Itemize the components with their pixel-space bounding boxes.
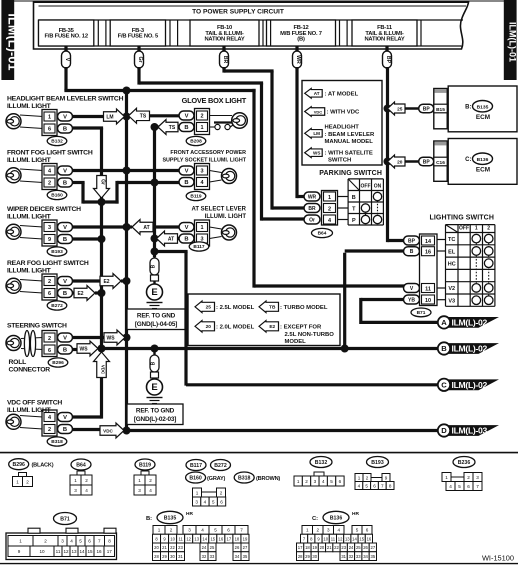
svg-text:: BEAM LEVELER: : BEAM LEVELER	[325, 132, 375, 138]
svg-text:21: 21	[162, 545, 167, 550]
svg-text:23: 23	[341, 545, 346, 550]
svg-text:10: 10	[39, 549, 45, 554]
svg-text:4: 4	[358, 483, 361, 488]
svg-text:(BLACK): (BLACK)	[32, 463, 54, 469]
svg-text:26: 26	[235, 545, 240, 550]
svg-text:5: 5	[356, 528, 359, 533]
svg-text:ILM(L)-02: ILM(L)-02	[452, 317, 488, 327]
svg-text:27: 27	[370, 545, 375, 550]
svg-text:VDC OFF SWITCH: VDC OFF SWITCH	[7, 400, 62, 407]
svg-text:2: 2	[149, 478, 152, 483]
svg-text:13: 13	[194, 536, 199, 541]
svg-text:4: 4	[322, 479, 325, 484]
svg-text:34: 34	[363, 554, 368, 559]
svg-text:9: 9	[18, 549, 21, 554]
svg-text:1: 1	[297, 479, 300, 484]
svg-text:3: 3	[188, 528, 191, 533]
svg-text:WS: WS	[79, 346, 88, 352]
svg-text:16: 16	[425, 250, 431, 256]
svg-text:ILLUMI. LIGHT: ILLUMI. LIGHT	[7, 213, 52, 220]
svg-text:6: 6	[366, 528, 369, 533]
svg-text:2: 2	[85, 478, 88, 483]
svg-text:BP: BP	[385, 56, 391, 64]
svg-text:17: 17	[298, 545, 303, 550]
svg-text:13: 13	[71, 549, 77, 554]
svg-text:19: 19	[243, 536, 248, 541]
svg-text:(GRAY): (GRAY)	[207, 476, 226, 482]
svg-text:2: 2	[170, 528, 173, 533]
svg-text:ON: ON	[374, 184, 382, 190]
svg-text:WR: WR	[308, 195, 317, 201]
svg-text:TC: TC	[448, 237, 455, 243]
svg-text:2: 2	[48, 181, 51, 187]
svg-text:1: 1	[328, 195, 331, 201]
svg-text:26: 26	[363, 545, 368, 550]
svg-text:ECM: ECM	[476, 167, 490, 174]
svg-text:3: 3	[138, 488, 141, 493]
svg-text:D: D	[441, 426, 447, 435]
svg-text:: 2.0L MODEL: : 2.0L MODEL	[216, 325, 255, 331]
svg-text:2: 2	[48, 427, 51, 433]
svg-text:22: 22	[334, 545, 339, 550]
svg-text:2: 2	[220, 491, 223, 496]
svg-text:: WITH SATELITE: : WITH SATELITE	[325, 150, 373, 156]
svg-text:Or: Or	[309, 218, 315, 224]
svg-text:B272: B272	[51, 303, 63, 309]
svg-text:B117: B117	[193, 244, 205, 250]
svg-text:AT SELECT LEVER: AT SELECT LEVER	[191, 207, 246, 213]
svg-text:WR: WR	[295, 55, 301, 64]
svg-text:ILLUMI. LIGHT: ILLUMI. LIGHT	[7, 267, 52, 274]
svg-text:B: B	[184, 237, 188, 243]
svg-text:LM: LM	[106, 114, 113, 120]
svg-text:B193: B193	[371, 460, 384, 466]
svg-text:33: 33	[356, 554, 361, 559]
svg-text:REAR FOG LIGHT SWITCH: REAR FOG LIGHT SWITCH	[7, 260, 89, 267]
svg-text:4: 4	[337, 528, 340, 533]
svg-text:BR: BR	[308, 206, 316, 212]
svg-text:A: A	[441, 318, 447, 327]
svg-text:LM: LM	[313, 131, 320, 136]
svg-text:AT: AT	[143, 225, 149, 231]
svg-text:4: 4	[85, 488, 88, 493]
svg-text:6: 6	[227, 528, 230, 533]
svg-text:15: 15	[210, 536, 215, 541]
svg-text:B: B	[184, 125, 188, 131]
svg-text:17: 17	[227, 536, 232, 541]
svg-text:HEADLIGHT BEAM LEVELER SWITCH: HEADLIGHT BEAM LEVELER SWITCH	[7, 96, 124, 103]
svg-text:B:: B:	[465, 105, 471, 111]
svg-text:C:: C:	[312, 516, 318, 522]
svg-text:: TURBO MODEL: : TURBO MODEL	[280, 305, 328, 311]
svg-text:B: B	[441, 344, 447, 353]
svg-text:29: 29	[162, 554, 167, 559]
svg-text:STEERING SWITCH: STEERING SWITCH	[7, 323, 67, 330]
svg-text:34: 34	[235, 554, 240, 559]
svg-text:1: 1	[200, 125, 203, 131]
svg-text:12: 12	[186, 536, 191, 541]
svg-text:2: 2	[316, 528, 319, 533]
svg-text:ILM(L)-03: ILM(L)-03	[452, 426, 488, 436]
svg-text:SUPPLY SOCKET ILLUMI. LIGHT: SUPPLY SOCKET ILLUMI. LIGHT	[162, 157, 246, 163]
svg-text:7: 7	[98, 539, 101, 544]
svg-text:27: 27	[243, 545, 248, 550]
svg-text:9: 9	[385, 476, 388, 481]
svg-text:12: 12	[63, 549, 69, 554]
svg-text:B136: B136	[477, 157, 489, 163]
svg-text:WS: WS	[313, 151, 320, 156]
svg-text:B132: B132	[315, 460, 328, 466]
svg-text:20: 20	[397, 159, 403, 165]
svg-text:20: 20	[206, 324, 212, 330]
svg-text:15: 15	[87, 549, 93, 554]
svg-text:16: 16	[367, 536, 372, 541]
svg-text:E2: E2	[103, 279, 109, 285]
svg-text:18: 18	[235, 536, 240, 541]
svg-text:6: 6	[88, 539, 91, 544]
svg-text:14: 14	[352, 536, 357, 541]
svg-text:20: 20	[320, 545, 325, 550]
svg-text:B136: B136	[330, 516, 343, 522]
svg-text:1: 1	[306, 528, 309, 533]
svg-text:31: 31	[341, 554, 346, 559]
svg-text:10: 10	[425, 298, 431, 304]
svg-text:18: 18	[305, 545, 310, 550]
svg-text:17: 17	[107, 549, 113, 554]
svg-text:: EXCEPT FOR: : EXCEPT FOR	[280, 325, 322, 331]
svg-text:B160: B160	[189, 476, 202, 482]
svg-text:8: 8	[389, 483, 392, 488]
svg-text:2: 2	[467, 475, 470, 480]
svg-text:: WITH VDC: : WITH VDC	[327, 110, 360, 116]
svg-text:VDC: VDC	[101, 365, 106, 375]
svg-text:V: V	[63, 415, 67, 421]
svg-text:32: 32	[349, 554, 354, 559]
svg-text:5: 5	[330, 479, 333, 484]
svg-text:22: 22	[170, 545, 175, 550]
svg-text:(B): (B)	[297, 37, 305, 43]
svg-text:B64: B64	[76, 463, 86, 469]
svg-text:P: P	[352, 218, 356, 224]
svg-text:ILM(L)-01: ILM(L)-01	[508, 22, 518, 62]
svg-text:3: 3	[476, 475, 479, 480]
svg-text:REF. TO GND: REF. TO GND	[136, 408, 175, 415]
svg-text:B: B	[410, 249, 414, 255]
svg-text:20: 20	[154, 545, 159, 550]
svg-text:: 2.5L MODEL: : 2.5L MODEL	[216, 305, 255, 311]
svg-text:BR: BR	[222, 56, 228, 64]
svg-text:4: 4	[449, 484, 452, 489]
svg-text:2: 2	[48, 336, 51, 342]
svg-text:7: 7	[381, 483, 384, 488]
svg-text:F/B FUSE NO. 5: F/B FUSE NO. 5	[118, 34, 159, 40]
svg-text:OFF: OFF	[361, 184, 371, 190]
svg-text:10: 10	[170, 536, 175, 541]
svg-text:TS: TS	[169, 125, 176, 131]
svg-text:E: E	[151, 287, 157, 298]
svg-text:V: V	[63, 225, 67, 231]
svg-text:B71: B71	[417, 310, 426, 316]
svg-text:B: B	[184, 180, 188, 186]
svg-text:9: 9	[48, 237, 51, 243]
svg-text:WIPER DEICER SWITCH: WIPER DEICER SWITCH	[7, 206, 81, 213]
svg-text:4: 4	[204, 499, 207, 504]
svg-text:NATION RELAY: NATION RELAY	[204, 37, 244, 43]
svg-text:ILM(L)-01: ILM(L)-01	[5, 13, 19, 70]
svg-text:11: 11	[56, 549, 61, 554]
svg-text:ILM(L)-02: ILM(L)-02	[452, 344, 488, 354]
svg-text:BP: BP	[423, 107, 431, 113]
svg-text:25: 25	[356, 545, 361, 550]
svg-text:SWITCH: SWITCH	[328, 158, 351, 164]
svg-text:3: 3	[74, 488, 77, 493]
svg-text:TO POWER SUPPLY CIRCUIT: TO POWER SUPPLY CIRCUIT	[192, 9, 284, 16]
svg-text:2.5L NON-TURBO: 2.5L NON-TURBO	[285, 332, 335, 338]
svg-text:5: 5	[79, 539, 82, 544]
svg-text:ROLL: ROLL	[9, 359, 27, 366]
svg-text:C16: C16	[436, 160, 445, 166]
svg-text:ILLUMI. LIGHT: ILLUMI. LIGHT	[205, 214, 247, 220]
svg-text:1: 1	[19, 539, 22, 544]
svg-text:B236: B236	[458, 460, 471, 466]
svg-text:B208: B208	[190, 139, 202, 145]
svg-text:V: V	[185, 114, 189, 120]
svg-text:30: 30	[312, 554, 317, 559]
svg-text:ILLUMI. LIGHT: ILLUMI. LIGHT	[7, 157, 52, 164]
svg-text:6: 6	[48, 127, 51, 133]
svg-text:13: 13	[345, 536, 350, 541]
svg-text:B: B	[63, 348, 67, 354]
svg-text:V: V	[63, 336, 67, 342]
svg-text:3: 3	[327, 528, 330, 533]
svg-text:1: 1	[196, 491, 199, 496]
svg-text:2: 2	[487, 226, 490, 232]
svg-text:3: 3	[61, 539, 64, 544]
svg-text:V: V	[63, 115, 67, 121]
svg-text:7: 7	[240, 528, 243, 533]
svg-text:14: 14	[79, 549, 85, 554]
svg-text:HC: HC	[448, 262, 456, 268]
svg-text:14: 14	[425, 239, 432, 245]
svg-text:B135: B135	[164, 516, 177, 522]
svg-text:5: 5	[212, 499, 215, 504]
svg-text:CONNECTOR: CONNECTOR	[9, 367, 51, 374]
svg-text:ILM(L)-02: ILM(L)-02	[452, 380, 488, 390]
svg-text:B296: B296	[52, 360, 64, 366]
svg-text:WS: WS	[106, 335, 115, 341]
svg-text:WI-15100: WI-15100	[482, 554, 514, 563]
svg-text:6: 6	[48, 291, 51, 297]
svg-text:11: 11	[425, 287, 431, 293]
svg-text:15: 15	[359, 536, 364, 541]
svg-text:2: 2	[44, 539, 47, 544]
svg-text:F/B FUSE NO. 12: F/B FUSE NO. 12	[44, 34, 87, 40]
svg-text:10: 10	[323, 536, 328, 541]
svg-text:31: 31	[178, 554, 183, 559]
svg-text:ILLUMI. LIGHT: ILLUMI. LIGHT	[7, 103, 52, 110]
svg-text:6: 6	[220, 499, 223, 504]
svg-text:1: 1	[74, 478, 77, 483]
svg-text:AT: AT	[168, 236, 174, 242]
svg-text:V: V	[185, 169, 189, 175]
svg-text:B318: B318	[238, 476, 251, 482]
svg-text:FRONT ACCESSORY POWER: FRONT ACCESSORY POWER	[170, 150, 246, 156]
svg-text:28: 28	[154, 554, 159, 559]
svg-text:3: 3	[200, 169, 203, 175]
svg-text:6: 6	[373, 483, 376, 488]
svg-text:HR: HR	[352, 511, 359, 517]
svg-text:28: 28	[298, 554, 303, 559]
svg-text:14: 14	[202, 536, 207, 541]
svg-text:6: 6	[467, 484, 470, 489]
svg-text:B135: B135	[477, 104, 489, 110]
svg-text:35: 35	[243, 554, 248, 559]
svg-text:B117: B117	[190, 463, 202, 469]
svg-text:VDC: VDC	[314, 109, 323, 114]
svg-text:23: 23	[178, 545, 183, 550]
svg-text:7: 7	[476, 484, 479, 489]
svg-text:35: 35	[371, 554, 376, 559]
svg-text:25: 25	[397, 106, 403, 112]
svg-text:V: V	[64, 58, 70, 62]
svg-text:B64: B64	[318, 231, 327, 237]
svg-text:B296: B296	[12, 462, 25, 468]
svg-text:REF. TO GND: REF. TO GND	[137, 313, 176, 320]
svg-text:1: 1	[475, 226, 478, 232]
svg-text:E: E	[151, 382, 157, 393]
svg-text:11: 11	[178, 536, 183, 541]
svg-text:16: 16	[96, 549, 102, 554]
svg-text:1: 1	[358, 476, 361, 481]
svg-text:3: 3	[48, 225, 51, 231]
svg-text:2: 2	[200, 114, 203, 120]
svg-text:[GND(L)-02-03]: [GND(L)-02-03]	[134, 416, 176, 423]
svg-text:B272: B272	[214, 463, 227, 469]
svg-text:E2: E2	[77, 291, 83, 297]
svg-text:YB: YB	[408, 298, 415, 304]
svg-text:19: 19	[312, 545, 317, 550]
svg-text:GLOVE BOX LIGHT: GLOVE BOX LIGHT	[182, 96, 247, 105]
svg-text:4: 4	[201, 528, 204, 533]
svg-text:1: 1	[16, 479, 19, 484]
svg-text:2: 2	[48, 279, 51, 285]
svg-text:2: 2	[305, 479, 308, 484]
svg-text:(BROWN): (BROWN)	[256, 476, 280, 482]
svg-text:: AT MODEL: : AT MODEL	[325, 92, 359, 98]
svg-text:B: B	[63, 127, 67, 133]
svg-text:11: 11	[331, 536, 336, 541]
svg-text:B: B	[63, 237, 67, 243]
svg-text:V: V	[63, 279, 67, 285]
svg-text:HR: HR	[186, 511, 193, 517]
svg-text:V: V	[185, 225, 189, 231]
svg-text:B119: B119	[139, 463, 151, 469]
svg-text:B: B	[352, 195, 356, 201]
svg-text:HEADLIGHT: HEADLIGHT	[325, 125, 360, 131]
svg-text:2: 2	[26, 479, 29, 484]
svg-text:B160: B160	[51, 193, 63, 199]
svg-text:B15: B15	[436, 107, 445, 113]
svg-text:NATION RELAY: NATION RELAY	[364, 37, 404, 43]
svg-text:PARKING SWITCH: PARKING SWITCH	[319, 170, 382, 177]
svg-text:E2: E2	[269, 324, 275, 330]
svg-text:3: 3	[195, 499, 198, 504]
svg-text:1: 1	[138, 478, 141, 483]
svg-text:1: 1	[200, 225, 203, 231]
svg-text:[GND(L)-04-05]: [GND(L)-04-05]	[135, 321, 177, 328]
svg-text:1: 1	[48, 115, 51, 121]
svg-text:LIGHTING SWITCH: LIGHTING SWITCH	[430, 215, 495, 222]
svg-text:24: 24	[349, 545, 354, 550]
svg-text:MANUAL MODEL: MANUAL MODEL	[325, 139, 374, 145]
svg-text:B: B	[63, 427, 67, 433]
svg-text:EL: EL	[448, 249, 456, 255]
svg-text:ECM: ECM	[476, 114, 490, 121]
svg-text:V2: V2	[448, 286, 455, 292]
svg-text:21: 21	[327, 545, 332, 550]
svg-text:ILLUMI. LIGHT: ILLUMI. LIGHT	[7, 407, 52, 414]
svg-text:TB: TB	[269, 305, 276, 311]
svg-text:3: 3	[314, 479, 317, 484]
svg-text:B: B	[151, 264, 157, 268]
svg-text:B193: B193	[51, 249, 63, 255]
svg-text:4: 4	[149, 488, 152, 493]
svg-text:C: C	[441, 380, 447, 389]
svg-text:B: B	[63, 291, 67, 297]
svg-text:MODEL: MODEL	[285, 339, 307, 345]
svg-text:12: 12	[338, 536, 343, 541]
svg-text:25: 25	[210, 545, 215, 550]
svg-text:Gr: Gr	[137, 56, 143, 62]
svg-text:2: 2	[366, 476, 369, 481]
svg-text:TS: TS	[140, 114, 147, 120]
svg-text:BP: BP	[423, 160, 431, 166]
svg-text:AT: AT	[314, 91, 320, 96]
svg-text:5: 5	[365, 483, 368, 488]
svg-text:8: 8	[108, 539, 111, 544]
svg-text:Gr: Gr	[100, 179, 106, 185]
svg-text:6: 6	[339, 479, 342, 484]
svg-text:2: 2	[328, 207, 331, 213]
svg-text:OFF: OFF	[459, 226, 469, 232]
svg-text:32: 32	[202, 554, 207, 559]
svg-text:5: 5	[214, 528, 217, 533]
svg-text:24: 24	[202, 545, 207, 550]
svg-text:5: 5	[458, 484, 461, 489]
svg-text:B119: B119	[190, 194, 202, 200]
svg-text:16: 16	[219, 536, 224, 541]
svg-text:FRONT FOG LIGHT SWITCH: FRONT FOG LIGHT SWITCH	[7, 150, 93, 157]
svg-text:V: V	[63, 169, 67, 175]
svg-text:B:: B:	[146, 516, 152, 522]
svg-text:29: 29	[305, 554, 310, 559]
svg-text:VDC: VDC	[103, 428, 113, 433]
svg-text:1: 1	[158, 528, 161, 533]
svg-text:B: B	[63, 181, 67, 187]
svg-text:BP: BP	[408, 239, 416, 245]
svg-text:V3: V3	[448, 299, 455, 305]
svg-text:25: 25	[206, 305, 212, 311]
svg-text:30: 30	[170, 554, 175, 559]
svg-text:4: 4	[70, 539, 73, 544]
svg-text:B: B	[151, 361, 157, 365]
svg-text:B132: B132	[51, 139, 63, 145]
svg-text:1: 1	[445, 475, 448, 480]
svg-text:6: 6	[48, 348, 51, 354]
svg-text:B71: B71	[60, 517, 70, 523]
svg-text:C:: C:	[465, 157, 471, 163]
svg-text:B318: B318	[51, 439, 63, 445]
